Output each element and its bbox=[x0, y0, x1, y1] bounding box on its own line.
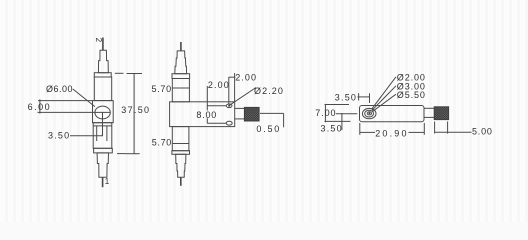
tube bottom division line (middle view) bbox=[172, 143, 189, 145]
dim 3.50 top horizontal line bbox=[358, 96, 370, 98]
dim 0.50 horizontal line bbox=[260, 112, 284, 114]
boot top (left view) bbox=[98, 50, 108, 72]
hatched block (middle view) bbox=[244, 107, 259, 121]
boot top (middle view) bbox=[175, 51, 187, 74]
svg-text:5.70: 5.70 bbox=[152, 138, 172, 148]
dim 8.00 / 2.00 vertical line (middle view) bbox=[206, 86, 208, 123]
svg-text:3.50: 3.50 bbox=[48, 130, 70, 140]
main body (right view) bbox=[360, 106, 425, 122]
stem upper line (middle view) bbox=[235, 107, 245, 109]
lower tube (middle view) bbox=[172, 127, 189, 151]
dim 37.50 top tick bbox=[127, 73, 142, 75]
stem lower line (middle view) bbox=[235, 118, 245, 120]
stem upper line (right view) bbox=[424, 107, 434, 109]
svg-text:3.50: 3.50 bbox=[321, 124, 343, 134]
dim 3.50 bottom vertical line bbox=[341, 113, 343, 130]
dim 6.00 upper extension line bbox=[38, 100, 93, 102]
dim 2.00 edge extension line bbox=[234, 73, 236, 102]
svg-text:2.00: 2.00 bbox=[235, 73, 257, 83]
tube top division line (middle view) bbox=[172, 87, 189, 89]
dim leader 3.50 (left view) bbox=[70, 134, 102, 136]
dim 20.90 left extension line bbox=[359, 123, 361, 135]
dim 37.50 bottom tick bbox=[125, 153, 140, 155]
fiber pigtail 2 (left view top) bbox=[102, 38, 104, 51]
dim leader arrow dot diameter 2.20 bbox=[228, 105, 230, 107]
dim leader diameter 2.20 bbox=[230, 88, 256, 106]
ferrule tube top (left view) bbox=[94, 77, 111, 101]
dim 5.00 right extension line bbox=[447, 122, 449, 134]
svg-text:8.00: 8.00 bbox=[196, 110, 217, 120]
dim 37.50 top extension dash bbox=[115, 72, 124, 74]
dim 6.00 vertical line bbox=[39, 99, 41, 113]
lower tube division line bbox=[93, 125, 112, 127]
main body (left view) bbox=[93, 101, 114, 123]
dim 0.50 vertical line bbox=[283, 113, 285, 127]
dim leader to 3.00 label bbox=[372, 86, 396, 111]
dim 8.00 top extension line bbox=[207, 105, 226, 107]
dim 7.00 bottom extension line bbox=[325, 120, 351, 122]
collar top (left view) bbox=[94, 73, 111, 77]
dim 5.00 left extension line bbox=[434, 122, 436, 134]
inner sleeve hidden line right bbox=[106, 126, 108, 141]
hole center dot bbox=[368, 112, 370, 114]
dim 8.00 bottom extension line bbox=[207, 122, 226, 124]
hole ellipse (left view) bbox=[95, 106, 110, 119]
dim 20.90 line left part bbox=[360, 131, 375, 133]
svg-text:7.00: 7.00 bbox=[315, 108, 336, 118]
dim center extension line bbox=[336, 113, 358, 115]
svg-text:37.50: 37.50 bbox=[121, 105, 150, 115]
dim 3.50 top left tick bbox=[358, 93, 360, 100]
collar bottom (middle view) bbox=[172, 151, 190, 155]
dim 37.50 vertical line bbox=[133, 74, 135, 154]
stem lower line (right view) bbox=[424, 116, 434, 118]
svg-text:Ø5.50: Ø5.50 bbox=[397, 90, 426, 100]
dim 7.00 top extension line bbox=[325, 104, 350, 106]
dim 7.00 vertical line bbox=[324, 104, 326, 122]
svg-text:Ø2.20: Ø2.20 bbox=[254, 86, 284, 96]
svg-text:3.50: 3.50 bbox=[335, 93, 357, 103]
svg-text:6.00: 6.00 bbox=[28, 102, 52, 112]
svg-text:1: 1 bbox=[105, 177, 110, 186]
svg-text:20.90: 20.90 bbox=[375, 129, 409, 139]
hole outer circle diameter 5.50 bbox=[362, 108, 376, 118]
hole middle circle diameter 3.00 bbox=[365, 110, 374, 117]
collar top (middle view) bbox=[172, 74, 190, 79]
inner sleeve hidden line left bbox=[96, 126, 98, 141]
svg-text:2: 2 bbox=[94, 38, 103, 43]
collar bottom (left view) bbox=[94, 148, 113, 153]
dim 5.00 horizontal line bbox=[435, 131, 472, 133]
svg-text:2.00: 2.00 bbox=[208, 80, 230, 90]
dim 3.50 top right tick bbox=[369, 93, 371, 103]
dim 2.00 tick bbox=[229, 76, 236, 78]
bottom hole ellipse (middle view) bbox=[226, 121, 232, 125]
main body (middle view) bbox=[170, 102, 235, 127]
dim leader diameter 6.00 (left view) bbox=[73, 89, 95, 107]
dim 37.50 bottom extension dash bbox=[117, 153, 125, 155]
top hole ellipse (middle view) bbox=[226, 104, 232, 108]
fiber pigtail (middle view top) bbox=[180, 42, 182, 51]
fiber pigtail (middle view bottom) bbox=[180, 177, 182, 186]
svg-text:0.50: 0.50 bbox=[256, 124, 281, 134]
boot bottom (left view) bbox=[97, 153, 108, 177]
dim 20.90 right extension line bbox=[423, 123, 425, 135]
dim 2.00 hole extension line bbox=[228, 77, 230, 104]
dim leader to 5.50 label bbox=[373, 94, 396, 111]
dim 20.90 line right part bbox=[409, 131, 425, 133]
boot bottom (middle view) bbox=[176, 154, 186, 177]
dim 6.00 lower extension line through hole center bbox=[38, 111, 111, 113]
dim leader to 2.00 label bbox=[372, 77, 397, 110]
svg-text:5.70: 5.70 bbox=[152, 84, 172, 94]
svg-text:5.00: 5.00 bbox=[472, 127, 493, 137]
hole inner circle diameter 2.00 bbox=[367, 112, 371, 115]
ferrule tube top (middle view) bbox=[172, 79, 189, 102]
centerline below hole (left view) bbox=[102, 112, 104, 135]
hatched block (right view) bbox=[434, 107, 448, 120]
lower tube (left view) bbox=[93, 123, 112, 149]
fiber pigtail 1 (left view bottom) bbox=[102, 177, 104, 187]
svg-text:Ø6.00: Ø6.00 bbox=[46, 84, 73, 94]
